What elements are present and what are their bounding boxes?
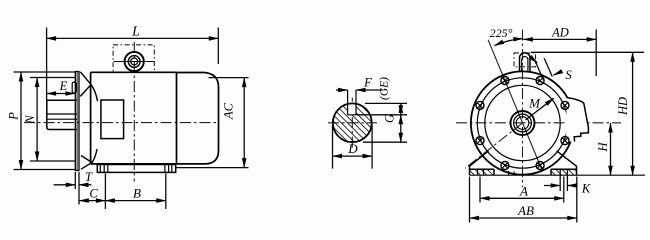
svg-text:HD: HD <box>616 97 630 116</box>
svg-text:B: B <box>133 186 141 201</box>
svg-text:M: M <box>528 96 541 111</box>
svg-text:AD: AD <box>551 26 569 40</box>
svg-text:A: A <box>519 184 528 199</box>
svg-text:T: T <box>85 170 93 184</box>
svg-text:225°: 225° <box>490 26 513 40</box>
svg-text:C: C <box>89 187 98 201</box>
svg-text:N: N <box>23 115 37 125</box>
svg-text:H: H <box>596 142 610 153</box>
svg-text:AB: AB <box>517 203 534 218</box>
svg-text:(GE): (GE) <box>379 77 391 100</box>
svg-text:G: G <box>383 114 397 123</box>
svg-text:AC: AC <box>222 102 236 120</box>
svg-text:P: P <box>7 112 21 121</box>
svg-text:K: K <box>581 182 591 196</box>
svg-text:S: S <box>565 68 572 82</box>
svg-text:L: L <box>131 25 140 40</box>
svg-text:E: E <box>59 79 68 93</box>
svg-text:F: F <box>363 76 372 90</box>
svg-text:D: D <box>347 141 358 156</box>
